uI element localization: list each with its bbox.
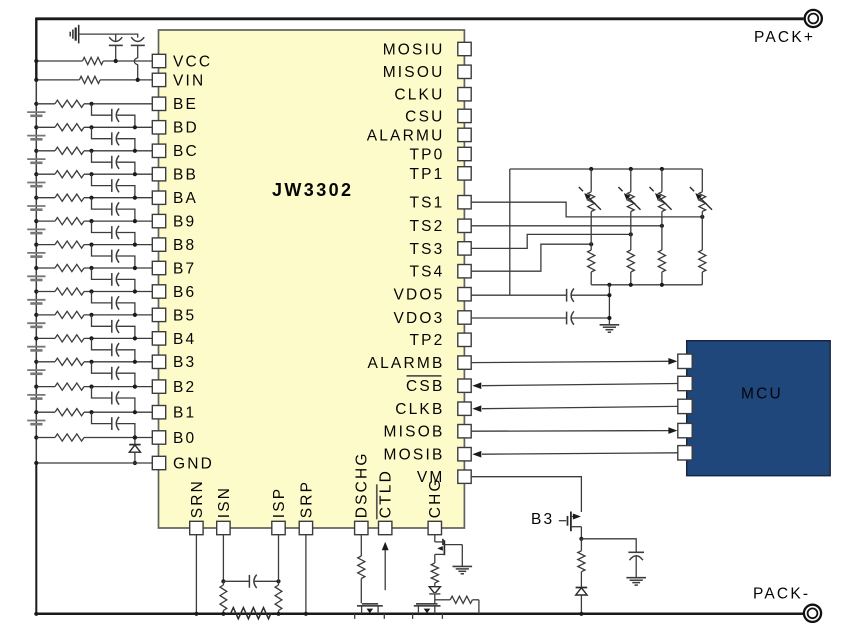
wire SRN net: [195, 535, 197, 614]
svg-text:CTLD: CTLD: [378, 469, 395, 518]
junction tap BB: [34, 172, 38, 176]
junction C-B4B3 at B3: [133, 360, 137, 364]
wire thermistor top rail: [510, 168, 703, 170]
capacitor C-B9B8: [92, 221, 135, 245]
battery cell B9-B8: [27, 229, 45, 233]
op-amp U1 JW3302 chip body: [159, 30, 465, 528]
wire tap BA to resistor: [36, 197, 55, 199]
junction node B2: [89, 385, 93, 389]
pin B6: [152, 284, 196, 301]
resistor R-CHG: [431, 563, 438, 583]
junction C-BAB9 at B9: [133, 219, 137, 223]
junction top rail col2: [629, 167, 633, 171]
wire R-B5 to pin B5: [84, 314, 152, 316]
svg-text:BE: BE: [173, 96, 198, 113]
pin BC: [152, 143, 199, 160]
wire R-B2 to pin B2: [84, 386, 152, 388]
pin TS1: [409, 195, 471, 212]
junction tap B5: [34, 313, 38, 317]
capacitor C-B3B2: [92, 362, 135, 387]
wire R-B7 to pin B7: [84, 267, 152, 269]
pin SRN: [189, 479, 206, 535]
wire MCU to CSB: [482, 384, 678, 386]
diode D-B3: [576, 588, 588, 614]
wire ALARMB to MCU: [471, 361, 668, 362]
arrow into MCU MISOB: [668, 427, 677, 434]
capacitor C2 (VIN decoupling): [131, 37, 145, 80]
resistor R-B7: [55, 264, 84, 271]
svg-text:TS3: TS3: [409, 241, 444, 258]
svg-text:MISOB: MISOB: [384, 424, 445, 441]
pin MISOU: [383, 64, 472, 81]
wire tap BC to resistor: [36, 150, 55, 152]
wire VDO3 net: [471, 311, 609, 324]
svg-text:B3: B3: [531, 511, 554, 528]
wire R-B1 to pin B1: [84, 411, 152, 413]
svg-text:BA: BA: [173, 190, 198, 207]
ground (signal ground, top-left): [70, 25, 79, 44]
battery cell BD-BC: [27, 136, 45, 140]
pin B4: [152, 331, 196, 348]
svg-text:B3: B3: [173, 354, 196, 371]
ground (thermistor network): [600, 325, 620, 332]
junction C-BBBA at BA: [133, 196, 137, 200]
wire GND net: [36, 462, 152, 464]
resistor R-B1: [55, 409, 84, 416]
svg-text:ISP: ISP: [271, 487, 288, 519]
junction node B3: [89, 360, 93, 364]
wire tap B1 to resistor: [36, 411, 55, 413]
svg-text:JW3302: JW3302: [272, 180, 353, 200]
pin B5: [152, 307, 196, 324]
junction VDO3 node: [607, 316, 611, 320]
wire MISOB to MCU: [471, 430, 668, 433]
thermistor RT2: [618, 169, 640, 212]
pin ALARMU: [367, 127, 471, 144]
resistor R-DSCHG: [358, 556, 365, 579]
wire VDO5 riser: [509, 169, 511, 295]
svg-text:VDO3: VDO3: [393, 310, 444, 327]
wire top rail PACK+ net: [36, 17, 803, 20]
resistor R-VIN: [79, 76, 100, 83]
arrow into chip MOSIB: [472, 451, 481, 458]
capacitor C1 (VCC decoupling): [109, 34, 123, 61]
wire ISN net: [222, 535, 224, 582]
capacitor C-BEBD: [92, 104, 135, 128]
battery cell B4-B3: [27, 347, 45, 351]
junction VCC-C1: [114, 59, 118, 63]
wire tap B3 to resistor: [36, 361, 55, 363]
junction tap B1: [34, 410, 38, 414]
wire ISP net: [278, 535, 280, 582]
thermistor RT3: [650, 169, 672, 212]
svg-text:VCC: VCC: [173, 53, 212, 70]
junction C-B3B2 at B2: [133, 385, 137, 389]
svg-text:DSCHG: DSCHG: [354, 451, 371, 518]
svg-text:TP0: TP0: [409, 146, 444, 163]
svg-text:MCU: MCU: [741, 386, 783, 403]
wire left battery rail bottom segment: [35, 463, 37, 614]
wire VDO5 net: [471, 289, 609, 302]
resistor R-TS4: [699, 250, 706, 272]
pin VDO5: [393, 287, 471, 304]
junction VIN-rail: [34, 78, 38, 82]
capacitor C-B5B4: [92, 315, 135, 339]
svg-text:B6: B6: [173, 284, 196, 301]
junction VCC-rail: [34, 59, 38, 63]
label MCU: [741, 386, 783, 403]
wire tap B8 to resistor: [36, 244, 55, 246]
junction C-B6B5 at B5: [133, 313, 137, 317]
svg-text:PACK+: PACK+: [754, 29, 815, 46]
wire tap B7 to resistor: [36, 267, 55, 269]
pin CTLD: [377, 469, 395, 535]
wire tap BB to resistor: [36, 173, 55, 175]
resistor R-BE: [55, 100, 84, 107]
capacitor C-B6B5: [92, 292, 135, 315]
resistor R-B9: [55, 218, 84, 225]
junction C-BDBC at BC: [133, 149, 137, 153]
pin TP2: [409, 332, 471, 349]
resistor R-B6: [55, 288, 84, 295]
junction C-B8B7 at B7: [133, 266, 137, 270]
svg-text:TS4: TS4: [409, 264, 444, 281]
capacitor C-B4B3: [92, 338, 135, 361]
diode D-B0 (B0 clamp): [129, 438, 140, 464]
battery cell B7-B6: [27, 276, 45, 280]
pin VCC: [152, 53, 212, 70]
resistor R-B0: [55, 434, 84, 441]
battery cell B8-B7: [27, 253, 45, 257]
capacitor C-BDBC: [92, 127, 135, 151]
wire tap B0 to resistor: [36, 437, 55, 439]
junction node B5: [89, 313, 93, 317]
label PACK+: [754, 29, 815, 46]
wire R-TS1 to bottom: [590, 272, 592, 285]
label JW3302: [272, 180, 353, 200]
pin CLKU: [394, 87, 471, 104]
junction node BD: [89, 125, 93, 129]
resistor R-SENSE (current shunt): [231, 608, 271, 619]
pin MCU-CSB: [678, 376, 692, 390]
capacitor C-B7B6: [92, 268, 135, 292]
resistor R-B8: [55, 241, 84, 248]
junction ISP node: [276, 579, 280, 583]
label B3: [531, 511, 554, 528]
pin TS3: [409, 241, 471, 258]
battery cell BE-BD: [27, 112, 45, 116]
junction C-BEBD at BD: [133, 125, 137, 129]
junction C-B7B6 at B6: [133, 289, 137, 293]
wire B3 node to cap: [581, 539, 636, 553]
junction node B1: [89, 410, 93, 414]
svg-text:B2: B2: [173, 379, 196, 396]
wire Q3 drain to ground: [461, 545, 463, 567]
battery cell BB-BA: [27, 183, 45, 187]
svg-text:SRN: SRN: [189, 479, 206, 518]
wire R-TS2 to bottom: [630, 272, 632, 285]
battery cell B1-B0: [27, 421, 45, 425]
svg-text:CHG: CHG: [427, 477, 444, 518]
pin ISN: [216, 486, 233, 535]
svg-text:ALARMB: ALARMB: [368, 355, 445, 372]
wire CHG net: [434, 535, 436, 542]
pin TS4: [409, 264, 471, 281]
pin TS2: [409, 218, 471, 235]
pin MISOB: [384, 424, 472, 441]
resistor R-GS (gate pulldown): [450, 596, 479, 614]
svg-text:CSU: CSU: [405, 108, 444, 125]
transistor Q1 (discharge FET): [355, 604, 385, 619]
junction bottom col3: [660, 283, 664, 287]
wire left battery rail: [35, 80, 37, 463]
wire tap B6 to resistor: [36, 291, 55, 293]
wire R-BC to pin BC: [84, 150, 152, 152]
battery cell BC-BB: [27, 159, 45, 163]
pin CSB: [406, 376, 471, 395]
resistor R-BB: [55, 171, 84, 178]
wire D-CHG to Q2 gate and pulldown: [435, 599, 450, 601]
wire RT4 to R4: [701, 212, 703, 251]
battery cell B3-B2: [27, 370, 45, 374]
junction tap B9: [34, 219, 38, 223]
capacitor C-BCBB: [92, 151, 135, 174]
pin MOSIU: [383, 41, 472, 58]
wire TS2 to thermistor: [471, 225, 662, 227]
resistor R-TS1: [588, 250, 595, 272]
wire R-B8 to pin B8: [84, 244, 152, 246]
svg-text:MOSIB: MOSIB: [384, 447, 445, 464]
wire R-TS3 to bottom: [661, 272, 663, 285]
pin B9: [152, 214, 196, 231]
pin BD: [152, 120, 199, 137]
svg-text:GND: GND: [173, 455, 214, 472]
pin MOSIB: [384, 447, 472, 464]
arrow CTLD control input: [382, 542, 389, 590]
pin TP1: [409, 166, 471, 183]
terminal PACK+: [805, 10, 822, 27]
pin VM: [417, 469, 471, 486]
junction TS1 node: [700, 215, 704, 219]
svg-text:VDO5: VDO5: [393, 287, 444, 304]
svg-text:CLKU: CLKU: [394, 87, 444, 104]
wire R-B0 to pin B0: [84, 437, 152, 439]
pin VDO3: [393, 310, 471, 327]
resistor R-BA: [55, 194, 84, 201]
svg-text:B1: B1: [173, 405, 196, 422]
pin CLKB: [395, 401, 471, 418]
wire R-TS4 to bottom: [701, 272, 703, 285]
capacitor C-B2B1: [92, 387, 135, 413]
svg-text:MOSIU: MOSIU: [383, 41, 445, 58]
junction bottom-left corner: [34, 612, 38, 616]
resistor R-BC: [55, 147, 84, 154]
pin VIN: [152, 72, 205, 89]
junction ISN node: [221, 579, 225, 583]
label PACK-: [753, 586, 810, 603]
junction tap B7: [34, 266, 38, 270]
wire R-DSCHG to Q1 gate: [360, 579, 362, 604]
capacitor C-B3: [628, 552, 644, 577]
wire MCU to CLKB: [482, 406, 678, 408]
junction tap B8: [34, 243, 38, 247]
pin B8: [152, 237, 196, 254]
junction tap B4: [34, 336, 38, 340]
arrow into MCU ALARMB: [668, 358, 677, 365]
svg-text:SRP: SRP: [298, 480, 315, 518]
wire SRP net: [305, 535, 307, 614]
wire VIN net: [36, 79, 152, 81]
battery cell B6-B5: [27, 300, 45, 304]
pin B2: [152, 379, 196, 396]
battery cell B5-B4: [27, 323, 45, 327]
wire RT3 to R3: [661, 212, 663, 251]
terminal PACK-: [804, 605, 821, 622]
wire left battery rail top segment: [35, 18, 37, 81]
pin B7: [152, 260, 196, 277]
junction node BE: [89, 102, 93, 106]
pin B0: [152, 430, 196, 447]
resistor R-ISP: [275, 581, 282, 614]
junction tap BC: [34, 149, 38, 153]
wire tap B4 to resistor: [36, 337, 55, 339]
junction B3 source node: [579, 537, 583, 541]
svg-text:TP2: TP2: [409, 332, 444, 349]
pin MCU-MISOB: [678, 423, 692, 437]
resistor R-ISN: [220, 581, 227, 614]
svg-text:CSB: CSB: [406, 378, 444, 395]
capacitor C-B8B7: [92, 245, 135, 268]
svg-text:B5: B5: [173, 307, 196, 324]
junction TS3 node: [629, 232, 633, 236]
MCU block: [687, 341, 831, 476]
pin ISP: [271, 487, 288, 535]
junction tap B0: [34, 435, 38, 439]
svg-text:BD: BD: [173, 120, 199, 137]
wire R-B6 to pin B6: [84, 291, 152, 293]
junction C-B1B0 at B0: [133, 435, 137, 439]
svg-text:B4: B4: [173, 331, 196, 348]
wire TS1 to thermistor: [471, 202, 702, 217]
wire tap B5 to resistor: [36, 314, 55, 316]
junction tap B3: [34, 360, 38, 364]
resistor R-B5: [55, 311, 84, 318]
transistor Q3 (CHG driver): [435, 539, 463, 563]
junction node BC: [89, 149, 93, 153]
junction R-ISP rail: [276, 612, 280, 616]
pin B3: [152, 354, 196, 371]
wire tap BE to resistor: [36, 103, 55, 105]
wire VCC net: [36, 60, 152, 62]
wire RT1 to R1: [590, 212, 592, 251]
arrow into chip CLKB: [472, 405, 481, 412]
junction bottom ground tap: [607, 283, 611, 287]
svg-text:BB: BB: [173, 167, 198, 184]
wire DSCHG net: [360, 535, 362, 556]
pin BA: [152, 190, 198, 207]
wire tap B9 to resistor: [36, 220, 55, 222]
capacitor C-B1B0: [92, 412, 135, 437]
wire TS4 to thermistor: [471, 244, 591, 271]
resistor R-B3: [55, 358, 84, 365]
junction node B8: [89, 243, 93, 247]
junction tap B6: [34, 289, 38, 293]
wire thermistor ground drop: [608, 285, 610, 325]
wire TS3 to thermistor: [471, 234, 631, 248]
junction top rail col1: [589, 167, 593, 171]
junction node B6: [89, 289, 93, 293]
wire R-BD to pin BD: [84, 126, 152, 128]
wire tap B2 to resistor: [36, 386, 55, 388]
junction C-B2B1 at B1: [133, 410, 137, 414]
junction D-B0 bottom: [133, 461, 137, 465]
battery cell B2-B1: [27, 395, 45, 399]
svg-text:CLKB: CLKB: [395, 401, 444, 418]
pin MCU-MOSIB: [678, 446, 692, 460]
junction D-B0 top: [133, 435, 137, 439]
resistor R-B3: [578, 539, 585, 588]
junction node BB: [89, 172, 93, 176]
junction tap BD: [34, 125, 38, 129]
junction top rail col4: [701, 168, 703, 170]
svg-text:B7: B7: [173, 260, 196, 277]
wire tap BD to resistor: [36, 126, 55, 128]
svg-text:PACK-: PACK-: [753, 586, 810, 603]
junction node B4: [89, 336, 93, 340]
svg-text:TP1: TP1: [409, 166, 444, 183]
wire R-BE to pin BE: [84, 103, 152, 105]
junction GND-rail: [34, 461, 38, 465]
capacitor C-BAB9: [92, 198, 135, 221]
wire R-BA to pin BA: [84, 197, 152, 199]
wire RT2 to R2: [630, 212, 632, 251]
junction VIN-C2: [136, 78, 140, 82]
pin ALARMB: [368, 355, 472, 372]
transistor B3 (pack FET): [559, 512, 582, 539]
pin BB: [152, 167, 198, 184]
junction tap BA: [34, 196, 38, 200]
junction D-B3 rail: [579, 612, 583, 616]
wire R-B9 to pin B9: [84, 220, 152, 222]
junction SRN rail: [194, 612, 198, 616]
resistor R-VCC: [83, 57, 104, 64]
svg-text:TS2: TS2: [409, 218, 444, 235]
pin DSCHG: [354, 451, 371, 534]
junction TS2 node: [660, 224, 664, 228]
junction C-B5B4 at B4: [133, 336, 137, 340]
capacitor C-BBBA: [92, 174, 135, 198]
wire R-B3 to pin B3: [84, 361, 152, 363]
wire thermistor bottom rail: [591, 284, 702, 286]
wire VM net: [471, 477, 581, 512]
junction C-BCBB at BB: [133, 172, 137, 176]
junction SRP rail: [304, 612, 308, 616]
resistor R-B2: [55, 383, 84, 390]
junction TS4 node: [589, 242, 593, 246]
thermistor RT4: [690, 169, 712, 212]
wire R-BB to pin BB: [84, 173, 152, 175]
wire R-B4 to pin B4: [84, 337, 152, 339]
svg-text:MISOU: MISOU: [383, 64, 445, 81]
pin TP0: [409, 146, 471, 163]
pin CSU: [405, 108, 471, 125]
svg-text:ALARMU: ALARMU: [367, 127, 445, 144]
junction bottom col2: [629, 283, 633, 287]
junction node B7: [89, 266, 93, 270]
resistor R-B4: [55, 335, 84, 342]
pin CHG: [427, 477, 444, 534]
diode D-CHG: [429, 583, 440, 603]
